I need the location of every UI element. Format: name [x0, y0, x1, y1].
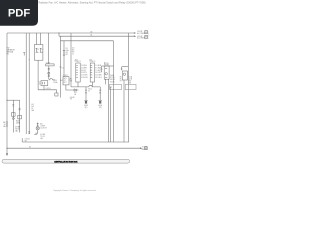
wire relay K5 feed	[122, 66, 129, 68]
reference tag bus2	[145, 35, 148, 38]
svg-text:3 0.8WT: 3 0.8WT	[95, 67, 101, 69]
svg-text:2 0.8DG: 2 0.8DG	[81, 65, 88, 67]
diode D2 on K11 chain	[48, 72, 50, 74]
svg-text:PT-7008 W1: PT-7008 W1	[147, 29, 149, 40]
wire stack U2 bottom stub	[91, 82, 93, 87]
wire branch2 end marks	[28, 132, 30, 133]
svg-text:14 B: 14 B	[129, 79, 132, 81]
svg-text:G104: G104	[98, 105, 102, 107]
connector B2 pins	[42, 82, 44, 84]
arrow bus H7	[140, 147, 142, 149]
node splice dot	[29, 59, 30, 60]
svg-text:1 0.8DB: 1 0.8DB	[95, 65, 101, 67]
svg-text:0.8: 0.8	[31, 104, 33, 106]
connector box below K5	[125, 84, 136, 89]
svg-text:14: 14	[4, 124, 6, 126]
svg-text:S110: S110	[88, 88, 92, 90]
svg-text:A: A	[37, 51, 39, 54]
svg-text:PCM C1: PCM C1	[75, 61, 81, 63]
clutch coil cross	[37, 127, 39, 129]
wire drop relay feed C	[59, 41, 61, 98]
reference tag H7	[145, 147, 148, 150]
svg-text:CENTRAL/JUNCTION BOX: CENTRAL/JUNCTION BOX	[54, 160, 78, 163]
svg-text:K1: K1	[88, 90, 90, 92]
svg-text:A22: A22	[75, 58, 78, 61]
wire relay K4 feed	[102, 65, 114, 67]
svg-text:8 0.8YL: 8 0.8YL	[81, 70, 87, 72]
connector bar C109	[46, 64, 54, 66]
svg-text:TN: TN	[70, 99, 73, 101]
svg-text:RD: RD	[66, 52, 69, 54]
arrow left rail end	[6, 153, 8, 156]
svg-text:A: A	[42, 51, 44, 54]
wire connector B2 output	[43, 86, 45, 90]
wire bus H6	[22, 141, 129, 143]
wire riser bus2 to bus3	[59, 36, 61, 41]
svg-text:RD: RD	[129, 81, 132, 83]
svg-text:14: 14	[72, 54, 74, 56]
svg-text:14 0.8OR: 14 0.8OR	[81, 77, 89, 79]
wire main right drop	[113, 41, 115, 142]
svg-text:0.8 BK: 0.8 BK	[40, 134, 46, 136]
svg-text:AC CL: AC CL	[104, 61, 109, 64]
svg-text:G103: G103	[84, 105, 88, 107]
wire fuse F31 feed	[40, 33, 42, 45]
svg-text:RD: RD	[72, 50, 75, 52]
svg-text:85: 85	[120, 79, 122, 81]
svg-text:A1: A1	[91, 34, 93, 37]
svg-text:87 RD: 87 RD	[110, 77, 115, 79]
wire K4 pin a lead	[104, 79, 106, 84]
ground G103 symbol	[84, 99, 87, 102]
svg-text:0.8 BK: 0.8 BK	[15, 127, 21, 129]
node J1 rail-H7	[6, 148, 7, 149]
relay K5 box	[122, 71, 127, 80]
svg-text:BK: BK	[3, 122, 6, 124]
svg-text:86 DG: 86 DG	[110, 79, 115, 81]
svg-text:PCM C2: PCM C2	[89, 61, 95, 63]
wire ground stem G103	[85, 87, 87, 100]
svg-text:0.8 DG: 0.8 DG	[25, 139, 31, 141]
reference tag bus1	[145, 31, 148, 34]
node J2 rail-H10	[6, 100, 7, 101]
svg-text:WT: WT	[25, 140, 28, 142]
svg-text:10: 10	[42, 49, 44, 51]
wire K4 pin b lead	[107, 79, 109, 142]
wire fuse F9 drop	[70, 33, 72, 87]
svg-text:WT: WT	[66, 54, 69, 56]
stack U1 pin ticks	[76, 65, 78, 77]
relay K4 inner ticks	[105, 68, 107, 77]
relay K4 box	[104, 66, 109, 79]
wire clutch bottom lead	[34, 130, 38, 135]
connector stack U2	[90, 63, 94, 82]
wire left rail	[6, 33, 8, 153]
svg-text:Radiator Fan, A/C Heater, Alte: Radiator Fan, A/C Heater, Alternator, St…	[39, 1, 146, 5]
svg-text:WT: WT	[72, 52, 75, 54]
svg-text:F32: F32	[7, 48, 10, 50]
svg-text:7 0.8GY: 7 0.8GY	[95, 70, 102, 72]
wire splice bus H9	[38, 90, 56, 93]
svg-text:0.8 DG: 0.8 DG	[46, 88, 52, 90]
svg-text:85 BK: 85 BK	[110, 81, 115, 83]
svg-text:C2: C2	[38, 81, 40, 83]
svg-text:Copyright Owner's Company, all: Copyright Owner's Company, all rights re…	[53, 189, 96, 192]
wire bus H7	[7, 147, 140, 149]
svg-text:D21: D21	[74, 92, 77, 94]
svg-text:86: 86	[120, 77, 122, 79]
svg-text:10: 10	[39, 84, 41, 86]
svg-text:SOL: SOL	[64, 78, 67, 80]
diode D1 symbol	[74, 89, 76, 91]
wire clutch connector ticks	[37, 124, 39, 125]
wire bus3 third feed	[60, 40, 113, 42]
svg-text:(IP): (IP)	[99, 107, 102, 109]
svg-text:CLUTCH: CLUTCH	[40, 127, 47, 129]
svg-text:12 0.8PK: 12 0.8PK	[81, 75, 88, 77]
svg-text:0.8: 0.8	[99, 90, 101, 92]
connector stack U1	[76, 63, 80, 82]
svg-text:PDF: PDF	[8, 7, 31, 19]
wire clutch feed stub	[37, 123, 39, 127]
wire bus2 second feed	[59, 35, 134, 37]
fuse F3 element	[63, 50, 65, 55]
wire ground bus H5	[71, 86, 100, 88]
svg-text:HOT AT: HOT AT	[137, 30, 142, 33]
clutch coil L1	[36, 127, 39, 130]
ground G104 symbol	[99, 99, 102, 102]
svg-text:A/C: A/C	[40, 122, 44, 125]
svg-text:A/C: A/C	[70, 78, 74, 81]
svg-text:87: 87	[120, 81, 122, 83]
svg-text:0.8 BK: 0.8 BK	[70, 97, 76, 99]
wire diode out stub	[76, 89, 78, 91]
wire K4 terminal stub	[101, 66, 103, 72]
wire switch chain ticks	[19, 108, 21, 109]
wire component feed H10	[7, 99, 20, 101]
svg-text:S110: S110	[53, 80, 57, 82]
wire K11 chain ticks upper	[48, 69, 50, 70]
wire crossover hop	[89, 85, 92, 87]
svg-text:B14: B14	[89, 59, 92, 61]
resistor R1 box	[12, 113, 16, 117]
svg-text:BK: BK	[99, 92, 102, 94]
svg-text:TO IGN: TO IGN	[142, 147, 148, 149]
wire fusebox output	[37, 60, 39, 90]
wire bus1 top feed	[7, 32, 134, 34]
wire K11 chain ticks lower	[48, 75, 50, 76]
wire K5 terminal stub	[121, 67, 123, 71]
wire relay K11 chain	[48, 66, 50, 79]
svg-text:RD: RD	[7, 54, 10, 56]
svg-text:(IP): (IP)	[85, 107, 88, 109]
wire resistor chain lead	[12, 100, 14, 132]
diode D3 diamond	[12, 117, 15, 120]
wire drop battery branch 2	[28, 33, 30, 134]
svg-text:0.8: 0.8	[72, 48, 74, 50]
svg-text:COMP: COMP	[40, 125, 45, 127]
wire fuse F30 feed	[35, 33, 37, 45]
relay K4 coil	[105, 73, 107, 75]
wire resistor chain ticks	[12, 105, 14, 106]
svg-text:11 0.8BK: 11 0.8BK	[95, 75, 102, 77]
svg-text:BK: BK	[85, 92, 88, 94]
svg-text:TN 14: TN 14	[15, 129, 19, 131]
wire mid drop	[110, 87, 112, 142]
PDF badge	[0, 0, 38, 26]
svg-text:A0: A0	[91, 30, 93, 33]
svg-text:15 0.8LG: 15 0.8LG	[95, 77, 102, 79]
svg-text:S201: S201	[16, 121, 20, 123]
svg-text:20: 20	[37, 49, 39, 51]
svg-text:4 0.8BR: 4 0.8BR	[81, 67, 88, 69]
svg-text:C2 RLY: C2 RLY	[63, 75, 68, 77]
wire mid drop tick	[110, 86, 112, 88]
central junction box bar	[2, 159, 130, 163]
node J3 bus1 riser	[59, 33, 60, 34]
connector box below K4	[110, 84, 122, 89]
arrow bus1	[134, 32, 136, 34]
svg-text:0.8: 0.8	[85, 90, 87, 92]
wire H6 left hook	[21, 138, 23, 142]
svg-text:TN 14: TN 14	[40, 136, 44, 138]
wire K11 hop to splice	[49, 79, 55, 80]
svg-text:RLY: RLY	[64, 82, 68, 84]
fuse F30 element	[36, 48, 38, 52]
stack U2 pin ticks	[91, 65, 93, 77]
svg-text:C109: C109	[46, 63, 50, 65]
wire switch chain lead	[19, 100, 21, 132]
svg-text:9 0.8TN: 9 0.8TN	[81, 72, 88, 74]
switch S3 box	[18, 115, 22, 119]
svg-text:F3: F3	[66, 48, 68, 50]
wire splice stub S1	[23, 53, 25, 56]
wire bus1 right drop	[127, 33, 129, 142]
relay K5 coil	[123, 73, 125, 75]
wire stack U1 bottom stub	[77, 82, 79, 87]
wire connector C109 feed	[47, 33, 49, 64]
svg-text:S2: S2	[29, 146, 31, 148]
wire K5 pin a lead	[123, 80, 125, 142]
fuse F31 element	[40, 48, 42, 52]
module B3 box	[63, 77, 69, 85]
svg-text:DG: DG	[31, 106, 34, 108]
wire fuse F3 drop	[63, 41, 65, 77]
connector B2 box	[41, 81, 48, 86]
wire B3 output with diode	[66, 85, 74, 90]
svg-text:HOT AT: HOT AT	[137, 35, 142, 38]
svg-text:51 A: 51 A	[129, 76, 133, 79]
arrow bus2	[134, 35, 136, 37]
splice box H9 end	[55, 93, 58, 96]
wire drop battery branch 1	[25, 33, 27, 134]
wire ground stem G104	[99, 87, 101, 100]
wire riser bus1 to bus2	[58, 33, 60, 36]
wire rail ticks	[6, 122, 8, 126]
svg-text:ST: ST	[64, 80, 66, 82]
wire drop C tick	[60, 66, 62, 68]
svg-text:C1: C1	[62, 67, 64, 69]
svg-text:14: 14	[31, 108, 33, 110]
svg-text:SW: SW	[70, 81, 73, 83]
fuse box outline	[34, 45, 43, 61]
svg-text:10 0.8VT: 10 0.8VT	[95, 72, 101, 74]
